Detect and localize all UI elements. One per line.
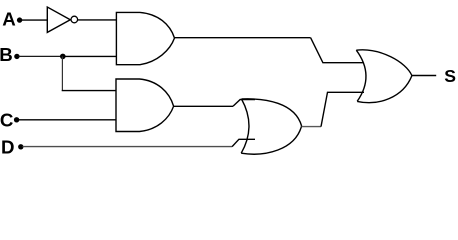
svg-text:D: D	[1, 137, 15, 158]
node A dot	[17, 17, 22, 22]
wire OR1 diagonal up to OR2	[321, 92, 364, 126]
wire OR1 output stub	[302, 126, 321, 128]
OR2 bottom curve	[357, 76, 412, 103]
wire junction branch down	[61, 56, 63, 90]
junction dot on B wire	[60, 54, 66, 60]
AND gate U3 (middle)	[116, 79, 174, 132]
inverter U1 bubble	[71, 16, 78, 23]
wire A dot to inverter	[21, 19, 47, 21]
wire junction to AND1 input 2	[63, 55, 117, 57]
wire inverter output to AND1 input 1	[78, 19, 117, 21]
wire D jog diagonal	[232, 139, 255, 146]
wire branch to AND2 input 1	[62, 90, 117, 92]
svg-text:B: B	[0, 44, 13, 65]
node B dot	[14, 54, 19, 59]
wire AND2 jog to OR1	[233, 100, 255, 107]
svg-text:A: A	[2, 8, 16, 29]
node D dot	[18, 144, 23, 149]
OR1 concave left arc	[241, 99, 249, 153]
wire OR2 output to S	[412, 75, 436, 77]
OR1 bottom curve	[241, 126, 301, 154]
OR1 top curve	[242, 99, 302, 126]
OR2 top curve	[356, 50, 412, 76]
wire C to AND2 input 2	[18, 119, 117, 121]
AND gate U2 (top)	[116, 12, 174, 64]
wire AND1 diagonal down	[311, 38, 363, 63]
svg-text:C: C	[0, 109, 13, 130]
wire AND1 output run	[175, 37, 311, 39]
OR gate U4 (bottom)	[241, 99, 301, 154]
inverter U1 triangle	[47, 7, 70, 32]
wire B dot to junction	[19, 55, 63, 57]
wire D long run	[23, 146, 233, 148]
svg-text:S: S	[444, 66, 456, 86]
node C dot	[14, 117, 19, 122]
OR2 concave left arc	[356, 50, 366, 101]
OR gate U5 (output)	[356, 50, 412, 103]
wire AND2 output run	[174, 105, 234, 107]
